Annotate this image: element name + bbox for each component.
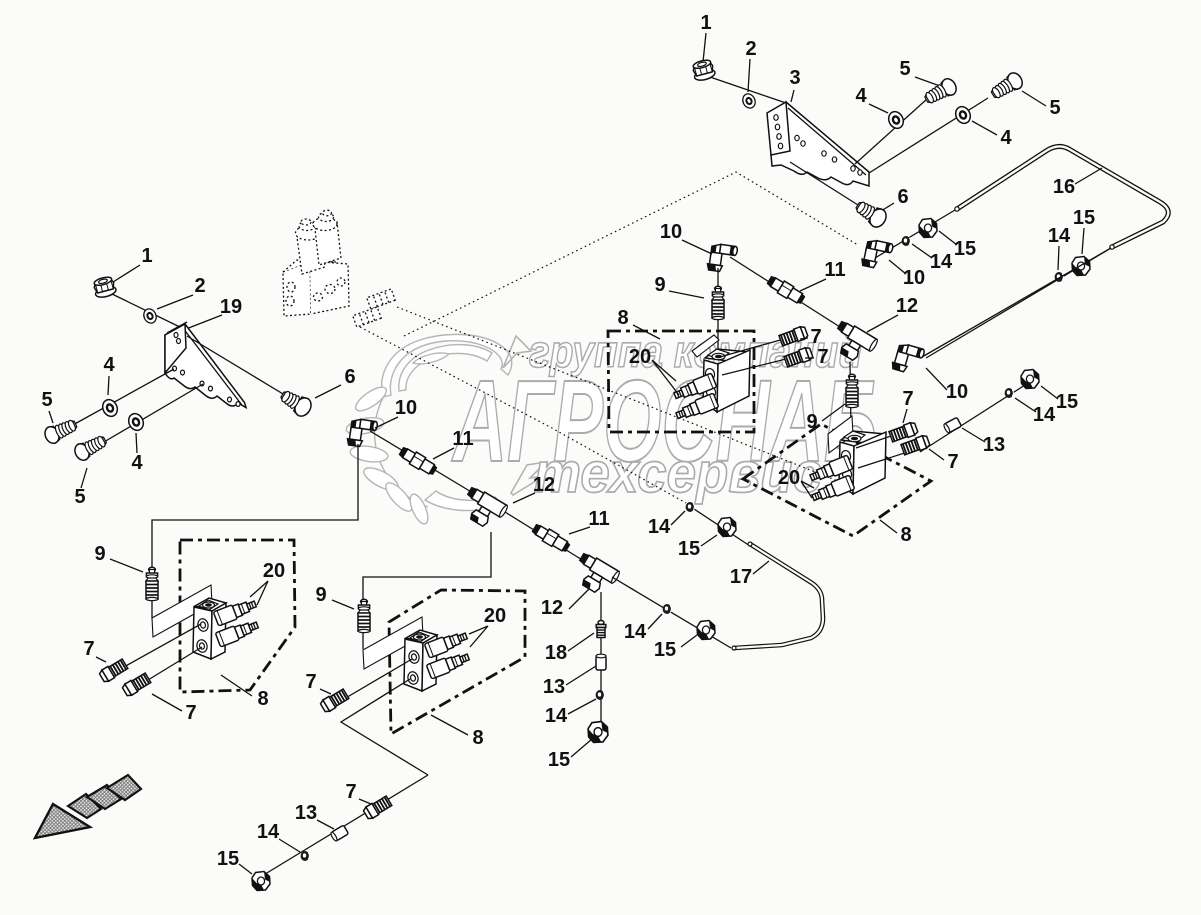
tee fitting 12d	[569, 551, 621, 599]
tee fitting 12a	[827, 319, 879, 367]
leader 11a	[800, 279, 826, 291]
fitting 7 valveD upper	[889, 421, 919, 442]
fitting 7 valveD lower	[901, 434, 931, 455]
bolt 9 valveA	[146, 567, 158, 600]
svg-text:8: 8	[257, 688, 268, 710]
svg-text:1: 1	[141, 245, 152, 267]
leader 7h	[320, 689, 331, 694]
leader 8a	[221, 675, 252, 696]
svg-text:15: 15	[548, 749, 570, 771]
leader 7c	[903, 409, 907, 423]
washer 4b	[953, 104, 973, 126]
dotted solenoid coil 2	[315, 222, 341, 265]
ring 14 chain3	[596, 690, 605, 700]
leader 3	[791, 90, 794, 102]
leader 8d	[880, 520, 897, 533]
svg-text:5: 5	[74, 486, 85, 508]
leader 1 left	[113, 265, 140, 282]
ring 14 bottom	[301, 851, 310, 861]
vertical line tee12a to valveD	[850, 362, 851, 430]
svg-text:10: 10	[395, 397, 417, 419]
dash-dot box 8 valveA	[180, 540, 295, 692]
pipe 17	[732, 542, 823, 650]
svg-text:5: 5	[41, 389, 52, 411]
svg-text:14: 14	[545, 705, 568, 727]
WATERMARK	[345, 326, 877, 526]
leader 5c	[49, 411, 53, 423]
flange nut 1 left	[92, 275, 117, 299]
wire elbow10d to valveA	[152, 444, 358, 618]
axis line bolt5a-washer4a-bracket	[855, 99, 927, 164]
svg-text:15: 15	[954, 238, 976, 260]
svg-text:15: 15	[1056, 391, 1078, 413]
svg-text:4: 4	[855, 85, 867, 107]
svg-text:9: 9	[654, 274, 665, 296]
svg-text:4: 4	[131, 452, 143, 474]
leader 9b	[669, 291, 704, 298]
svg-text:7: 7	[810, 326, 821, 348]
leader 14b	[912, 244, 932, 258]
axis line bolt5b-washer4b-bracket	[869, 98, 988, 173]
leader 5d	[81, 468, 87, 488]
leader 15g	[239, 864, 252, 874]
axis bottom chain	[257, 775, 428, 879]
elbow 10 top-right	[861, 238, 894, 271]
leader 8c	[633, 325, 660, 339]
fitting 7 bottom	[363, 795, 393, 820]
leader 10b	[889, 260, 906, 274]
spacer 13 bottom	[330, 825, 349, 842]
washer 2 left	[142, 307, 159, 325]
svg-text:18: 18	[545, 642, 567, 664]
leader 14f	[279, 839, 300, 852]
svg-text:16: 16	[1053, 176, 1075, 198]
leader 4b	[972, 121, 997, 135]
gasket plate valveA	[152, 585, 212, 637]
leader 2 left	[157, 295, 193, 309]
valve block C	[703, 349, 750, 412]
dash-dot box 8 valveB	[389, 590, 525, 734]
leader 10c	[926, 368, 947, 390]
hex bolt 5a	[922, 76, 959, 107]
vertical line tee12d branch down	[600, 592, 602, 722]
leader 7g	[152, 694, 182, 711]
axis tee12c to tee12d	[505, 512, 592, 566]
wire tee12c to valveB	[363, 532, 491, 649]
leader 10a	[682, 240, 712, 254]
leader 15c	[1082, 228, 1084, 254]
svg-text:10: 10	[903, 267, 925, 289]
pipe 16	[955, 146, 1169, 249]
axis lines fittings7 to valveA	[106, 624, 202, 691]
leader 5b	[1022, 91, 1046, 106]
leader 15L	[681, 635, 697, 647]
bolt 9 valveB	[358, 599, 370, 632]
svg-text:2: 2	[745, 38, 756, 60]
svg-text:8: 8	[472, 727, 483, 749]
svg-text:20: 20	[629, 346, 651, 368]
svg-text:7: 7	[83, 638, 94, 660]
straight fitting 11c	[397, 445, 438, 477]
axis line 7d-13-14-15	[920, 378, 1036, 452]
leader 9c	[822, 404, 845, 421]
axis ring14u to pipe17 upper end	[688, 505, 750, 546]
svg-text:9: 9	[315, 584, 326, 606]
dash-dot box 8 valveC	[608, 331, 754, 432]
leader 12d	[569, 589, 589, 609]
leader 7e	[96, 657, 106, 662]
svg-text:1: 1	[700, 12, 711, 34]
watermark glyph before row1	[503, 336, 531, 368]
nut 15 bottom	[252, 872, 270, 891]
svg-text:19: 19	[220, 296, 242, 318]
svg-text:4: 4	[1000, 127, 1012, 149]
leader 17	[753, 561, 769, 574]
svg-text:15: 15	[654, 639, 676, 661]
leader 9a	[110, 559, 143, 572]
axis line bolt5d-washer4d-bracket	[92, 384, 203, 449]
dash-dot box 8 valveD	[743, 424, 931, 536]
straight fitting 11d	[530, 522, 571, 554]
spacer 13 chain3	[596, 654, 606, 670]
svg-text:12: 12	[533, 474, 555, 496]
svg-text:15: 15	[1073, 207, 1095, 229]
svg-text:7: 7	[947, 451, 958, 473]
bolt 18	[596, 621, 606, 638]
axis line pipe16 right end to elbow10c	[926, 248, 1111, 358]
leader 15a	[571, 739, 592, 757]
solenoid valves 20 on valveC	[672, 373, 717, 403]
leader 4c	[108, 376, 109, 395]
axis elbow10c to pipe16 lower end	[922, 248, 1111, 357]
solenoid valves 20 on valveA	[213, 597, 258, 626]
leader 13c	[317, 820, 334, 829]
hex bolt 5c	[42, 416, 79, 445]
washer 2	[741, 92, 758, 110]
solenoid valves 20 on valveB	[424, 629, 469, 658]
axis line elbow10a to tee12a	[730, 257, 840, 327]
vertical line elbow10a to valveC	[717, 268, 719, 349]
leader 1	[703, 33, 706, 62]
bracket 3	[767, 102, 869, 186]
tee fitting 12c	[457, 485, 509, 533]
axis line fitting7 to valveB	[327, 659, 412, 709]
nut 15 chain3	[588, 722, 608, 743]
leader 7b	[805, 357, 814, 359]
axis elbow10d to tee12c	[370, 431, 478, 496]
bolt 9 valveD	[846, 374, 858, 407]
gasket plate valveC	[692, 335, 719, 357]
leader 7a	[800, 338, 808, 339]
hex bolt 5d	[72, 432, 109, 462]
leader 14L	[648, 614, 662, 629]
fitting 7 valveB	[320, 688, 350, 713]
svg-text:14: 14	[930, 251, 953, 273]
axis lines fittings7 to valveC	[720, 333, 810, 375]
svg-text:9: 9	[94, 543, 105, 565]
svg-text:12: 12	[541, 597, 563, 619]
axis line nut1b-washer2b-bracket	[112, 294, 184, 329]
washer 4c	[100, 397, 120, 419]
svg-text:4: 4	[103, 354, 115, 376]
svg-text:7: 7	[345, 781, 356, 803]
dotted projection line valve-to-ring14	[360, 327, 686, 503]
wire valveB port to bottom chain	[341, 679, 428, 775]
installed solenoid valve block (dotted reference)	[283, 210, 395, 327]
nut 15 pipe16 right	[1072, 257, 1090, 276]
leaders 20b	[652, 360, 679, 395]
leader 2	[748, 59, 750, 92]
svg-text:5: 5	[1049, 97, 1060, 119]
leader 7d	[929, 449, 944, 460]
leaders 20a	[250, 581, 268, 605]
fitting 7 valveA lower	[122, 672, 152, 697]
svg-text:14: 14	[1048, 225, 1071, 247]
leader 4a	[869, 104, 888, 113]
leader 12a	[867, 315, 898, 332]
svg-text:13: 13	[543, 676, 565, 698]
leader 14a	[568, 699, 596, 714]
svg-text:11: 11	[824, 259, 845, 281]
svg-text:20: 20	[263, 560, 285, 582]
dotted fitting upper	[367, 289, 396, 309]
axis tee12d to pipe17 lower end	[612, 577, 731, 648]
solenoid valves 20 on valveD	[808, 455, 853, 485]
svg-text:14: 14	[624, 621, 647, 643]
axis line elbow10b to pipe16 left end	[875, 210, 955, 258]
leader 14d	[1015, 398, 1036, 412]
DIRECTION ARROW	[35, 775, 141, 838]
svg-text:14: 14	[648, 516, 671, 538]
leader 14u	[671, 511, 685, 525]
svg-text:15: 15	[678, 538, 700, 560]
svg-text:5: 5	[899, 58, 910, 80]
dotted projection line valve-to-right-block	[397, 307, 848, 485]
leader 11c	[433, 448, 454, 459]
leader 7f	[359, 799, 371, 804]
svg-text:11: 11	[452, 428, 473, 450]
svg-text:10: 10	[660, 221, 682, 243]
leader 5a	[915, 77, 940, 86]
nut 15 upper pair	[718, 518, 736, 537]
nut 15 valveD	[1021, 370, 1039, 389]
leader 15b	[939, 231, 957, 245]
leaders 20c	[801, 481, 814, 498]
leader 8b	[431, 715, 468, 735]
ring 14 lower pair	[663, 604, 672, 614]
leader 19	[186, 315, 222, 329]
leader 13b	[962, 428, 985, 442]
svg-text:15: 15	[217, 848, 239, 870]
svg-text:17: 17	[730, 566, 752, 588]
ring 14 upper pair	[686, 502, 695, 512]
axis line nut1-washer2-bracket	[710, 77, 786, 103]
hex bolt 5b	[988, 70, 1025, 102]
svg-text:13: 13	[295, 802, 317, 824]
leader 12c	[513, 493, 535, 503]
watermark glyph before row3	[511, 462, 546, 495]
straight fitting 11a	[765, 274, 806, 306]
svg-text:8: 8	[900, 524, 911, 546]
svg-text:20: 20	[778, 467, 800, 489]
elbow 10d	[347, 417, 378, 448]
dotted projection line to bracket area	[404, 172, 858, 336]
valve block D	[839, 431, 886, 494]
leader 9d	[332, 600, 354, 609]
axis line bolt5c-washer4c-bracket	[62, 369, 174, 431]
bracket 19	[165, 322, 246, 408]
leader 18	[568, 633, 594, 651]
svg-text:7: 7	[902, 388, 913, 410]
svg-text:8: 8	[617, 307, 628, 329]
hex bolt 6a	[853, 197, 890, 230]
leader 10d	[375, 417, 398, 428]
svg-text:6: 6	[897, 186, 908, 208]
ring 14 pipe16 left	[902, 236, 911, 246]
leader 15d	[1041, 386, 1058, 399]
leader 6b	[315, 385, 341, 398]
svg-text:10: 10	[946, 381, 968, 403]
valve block B	[404, 630, 437, 691]
leader 14c	[1058, 246, 1059, 270]
flange nut 1	[691, 58, 716, 82]
leader 11d	[569, 527, 590, 534]
elbow 10c	[891, 342, 925, 376]
svg-text:6: 6	[344, 366, 355, 388]
svg-text:14: 14	[1033, 404, 1056, 426]
axis lines fittings7 to valveD	[856, 428, 920, 468]
leader 15u	[701, 535, 717, 546]
gasket plate valveD	[828, 416, 853, 453]
svg-text:2: 2	[194, 275, 205, 297]
svg-text:14: 14	[257, 821, 280, 843]
dotted fitting lower	[353, 307, 382, 327]
fitting 7 valveC lower	[784, 346, 814, 367]
svg-text:13: 13	[983, 434, 1005, 456]
nut 15 pipe16 left	[919, 219, 937, 238]
axis line bracket-bolt6b	[187, 336, 298, 403]
leader 16	[1075, 168, 1102, 184]
svg-text:20: 20	[484, 605, 506, 627]
axis line bracket-bolt6a	[790, 162, 858, 205]
washer 4a	[886, 109, 906, 131]
valve block A	[193, 598, 226, 659]
leader 6a	[881, 203, 894, 211]
svg-text:3: 3	[789, 67, 800, 89]
leader 4d	[136, 433, 137, 453]
bolt 9 valveC	[712, 286, 724, 319]
hex bolt 6b	[277, 386, 314, 419]
svg-text:11: 11	[588, 508, 609, 530]
leader 13a	[566, 666, 596, 685]
svg-text:12: 12	[896, 295, 918, 317]
ring 14 pipe16 right	[1055, 272, 1064, 282]
gasket plate valveB	[363, 617, 423, 669]
fitting 7 valveC upper	[779, 325, 809, 346]
ring 14 valveD	[1005, 388, 1014, 398]
fitting 7 valveA upper	[99, 658, 129, 683]
svg-text:7: 7	[185, 702, 196, 724]
svg-text:7: 7	[817, 346, 828, 368]
svg-text:7: 7	[305, 671, 316, 693]
washer 4d	[126, 411, 146, 433]
leaders 20d	[469, 626, 488, 647]
spacer 13 valveD	[943, 417, 962, 433]
watermark wreath logo	[345, 334, 512, 526]
elbow 10a	[707, 242, 738, 273]
nut 15 lower pair	[697, 621, 715, 640]
dotted solenoid coil 1	[297, 230, 325, 274]
